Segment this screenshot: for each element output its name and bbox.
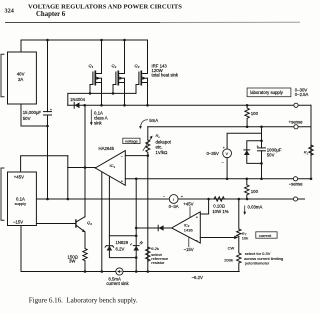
node: shunt right / R7 column — [238, 198, 241, 201]
wire: aux box bottom to bottom rail — [20, 226, 22, 272]
wire: bottom rail — [21, 271, 239, 273]
svg-text:resistor: resistor — [151, 260, 165, 265]
svg-text:100: 100 — [251, 111, 259, 116]
header rule — [5, 22, 160, 24]
auxiliary supply box — [8, 172, 37, 226]
wire: source rail — [68, 104, 311, 106]
node: voltmeter on sense rail — [226, 178, 229, 181]
potentiometer RV dekapot — [147, 127, 149, 140]
capacitor C1 15,000uF 50V — [47, 40, 49, 112]
resistor R1 100 (top) — [245, 105, 249, 126]
svg-text:current sink: current sink — [106, 281, 129, 286]
svg-text:IC1: IC1 — [110, 163, 116, 169]
wire: +sense rail — [148, 126, 311, 128]
svg-text:1N829: 1N829 — [116, 240, 129, 245]
svg-text:324: 324 — [5, 8, 14, 15]
svg-text:+: + — [50, 107, 53, 112]
svg-text:Rv: Rv — [156, 133, 161, 139]
node: source rail / IC1 drive column — [83, 104, 86, 107]
terminal: - output — [293, 197, 297, 201]
svg-text:potentiometer: potentiometer — [245, 260, 270, 265]
svg-text:6.2V: 6.2V — [116, 246, 125, 251]
diode D4 at IC2 output — [136, 227, 171, 229]
wire: IC2 V+ stub — [189, 207, 191, 218]
wire: IC2 - input to wiper arrow — [200, 237, 234, 239]
transistor Q3 IRF143 — [135, 40, 148, 105]
node: RL bottom on sense rail — [310, 178, 313, 181]
svg-text:100: 100 — [251, 189, 259, 194]
svg-text:0–3A: 0–3A — [169, 204, 179, 209]
node: drive column / IC1 output — [84, 166, 87, 169]
node: Q2 drain junction — [123, 39, 126, 42]
svg-text:200k: 200k — [224, 257, 233, 262]
svg-text:1436: 1436 — [184, 228, 194, 233]
svg-text:6.2k: 6.2k — [151, 246, 159, 251]
svg-text:−: − — [121, 154, 124, 159]
node: IC2 + tap — [207, 198, 210, 201]
svg-text:−6.2V: −6.2V — [192, 275, 203, 280]
svg-text:0–2.5A: 0–2.5A — [295, 92, 309, 97]
svg-text:supply: supply — [15, 201, 27, 206]
wire: gate rail — [68, 93, 136, 105]
op-amp U1 HA2645 — [95, 151, 125, 186]
label: voltage box — [123, 138, 140, 143]
wire: IC1 inverting input to pot wiper — [125, 155, 148, 157]
wire: IC2 V- stub — [188, 237, 190, 247]
wire: IC2 + input tap — [200, 199, 208, 214]
svg-text:Q4: Q4 — [87, 220, 92, 226]
svg-text:−15V: −15V — [13, 219, 23, 224]
svg-text:HA2645: HA2645 — [99, 146, 115, 151]
svg-text:+45V: +45V — [183, 202, 193, 207]
node: Q1 drain junction — [100, 39, 103, 42]
transistor Q4 — [36, 223, 76, 225]
wire: aux box top link — [21, 156, 68, 172]
label: laboratory supply box — [247, 88, 291, 97]
svg-text:50V: 50V — [23, 116, 31, 121]
node: cap bottom junction — [46, 125, 49, 128]
svg-text:laboratory supply: laboratory supply — [250, 90, 284, 95]
node: +45V rail at cap column — [46, 198, 49, 201]
svg-text:+: + — [181, 194, 184, 199]
node: gate rail Q1 — [89, 92, 92, 95]
svg-text:0.10Ω: 0.10Ω — [213, 203, 225, 208]
svg-text:current: current — [259, 233, 272, 238]
svg-text:15,000μF: 15,000μF — [23, 110, 42, 115]
wire: IC1 output to drive column — [68, 168, 96, 200]
terminal: -sense — [293, 177, 297, 181]
wire: +output sense rail — [125, 178, 311, 180]
annotation: 0.1A class A sink arrow — [90, 110, 92, 124]
svg-text:Chapter 6: Chapter 6 — [36, 11, 66, 18]
svg-text:1N4004: 1N4004 — [70, 97, 86, 102]
node: IC1 V- on bottom rail — [101, 270, 104, 273]
svg-text:etc.: etc. — [156, 144, 163, 149]
svg-text:10k: 10k — [242, 235, 248, 240]
wire: top +rail — [21, 40, 148, 52]
wire: + output right edge down to RL — [310, 105, 312, 179]
node: gate rail Q2 — [112, 92, 115, 95]
node: +45V rail at drive link — [67, 198, 70, 201]
resistor R6 6.2k reference — [146, 247, 150, 261]
potentiometer R8 200k current limit — [237, 237, 241, 272]
wire: 40V box bottom to cap node — [21, 104, 48, 126]
node: cap top junction — [46, 39, 49, 42]
svg-text:sink: sink — [94, 121, 102, 126]
wire: drive column (IC1 out to gates / Q4 collector) — [84, 105, 86, 216]
node: R3 on bottom rail — [84, 270, 87, 273]
node: Q1 source on rail — [100, 104, 103, 107]
wire: IC1 V- pin column — [101, 172, 103, 272]
svg-text:40V: 40V — [17, 72, 25, 77]
diode D1 1N4004 (gate clamp) — [75, 102, 80, 108]
svg-text:Figure 6.16. Laboratory bench: Figure 6.16. Laboratory bench supply. — [29, 297, 138, 305]
capacitor C2 1000uF 50V column — [261, 127, 263, 179]
svg-text:3A: 3A — [18, 77, 23, 82]
node: pot wiper to IC1 — [147, 154, 150, 157]
transistor Q1 IRF143 — [89, 40, 102, 105]
svg-text:−: − — [163, 193, 166, 198]
terminal: + output — [294, 103, 298, 107]
svg-text:3W: 3W — [69, 258, 76, 263]
svg-text:50V: 50V — [267, 153, 275, 158]
voltmeter M2 0-35V — [227, 133, 261, 149]
node: 100R bottom on rail — [246, 198, 249, 201]
svg-text:5mA: 5mA — [149, 118, 158, 123]
diode D2 output clamp — [247, 141, 262, 164]
transistor Q2 IRF143 — [112, 40, 125, 105]
svg-text:1000μF: 1000μF — [267, 147, 282, 152]
svg-text:V: V — [226, 151, 229, 156]
op-amp U2 1436 — [172, 212, 201, 243]
svg-text:+45V: +45V — [14, 175, 24, 180]
ammeter M1 0-3A — [169, 195, 178, 204]
resistor R7 10k — [237, 199, 241, 237]
svg-text:Q3: Q3 — [135, 63, 140, 69]
resistor R5 0.10 ohm shunt — [214, 197, 224, 201]
margin bracket lower — [1, 168, 5, 220]
svg-text:0–35V: 0–35V — [207, 151, 220, 156]
margin bracket upper — [1, 54, 5, 96]
svg-text:0.03mA: 0.03mA — [248, 205, 263, 210]
svg-text:total heat sink: total heat sink — [152, 73, 179, 78]
terminal: +sense — [294, 125, 298, 129]
node: Q3 source on rail — [146, 104, 149, 107]
wire: +45V rail — [36, 198, 169, 200]
current sink source 8.5mA — [116, 268, 123, 275]
node: Q2 source on rail — [123, 104, 126, 107]
resistor RL load — [309, 145, 313, 155]
svg-text:Q1: Q1 — [89, 63, 94, 69]
resistor R3 150 ohm 3W — [83, 232, 87, 271]
zener Z1 1N829 loop — [109, 236, 136, 258]
annotation: 0.03mA arrow — [244, 206, 246, 213]
svg-text:−sense: −sense — [289, 182, 304, 187]
svg-text:voltage: voltage — [125, 139, 139, 144]
label: current box — [256, 232, 277, 238]
svg-text:VOLTAGE REGULATORS AND POWER C: VOLTAGE REGULATORS AND POWER CIRCUITS — [28, 4, 182, 11]
node: sense rail / ref column — [135, 178, 138, 181]
wire: IC1 V+ pin column — [108, 176, 110, 236]
svg-text:Q2: Q2 — [112, 63, 117, 69]
svg-text:−: − — [222, 160, 225, 165]
diode D3 reference — [135, 179, 137, 272]
resistor R2 100 (sense divider) — [245, 179, 249, 199]
svg-text:−15V: −15V — [184, 247, 194, 252]
transformer/rectifier box 40V 3A — [8, 52, 37, 104]
svg-text:RL: RL — [304, 150, 309, 156]
svg-text:CW: CW — [228, 245, 235, 250]
svg-text:10W 1%: 10W 1% — [212, 209, 228, 214]
svg-text:+: + — [196, 215, 199, 220]
svg-text:+: + — [121, 179, 124, 184]
svg-text:1V/kΩ: 1V/kΩ — [156, 150, 169, 155]
svg-text:+sense: +sense — [289, 120, 304, 125]
